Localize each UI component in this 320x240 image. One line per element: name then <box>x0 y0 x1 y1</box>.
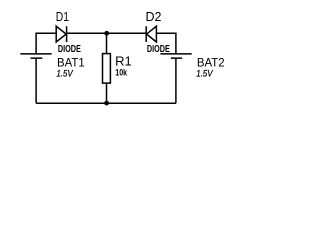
svg-text:D2: D2 <box>146 10 162 24</box>
svg-text:DIODE: DIODE <box>58 44 81 55</box>
svg-text:DIODE: DIODE <box>147 44 170 55</box>
svg-text:10k: 10k <box>115 68 127 79</box>
svg-text:1.5V: 1.5V <box>196 68 213 78</box>
svg-text:1.5V: 1.5V <box>56 68 73 78</box>
svg-text:D1: D1 <box>56 10 69 24</box>
svg-text:R1: R1 <box>115 54 132 69</box>
